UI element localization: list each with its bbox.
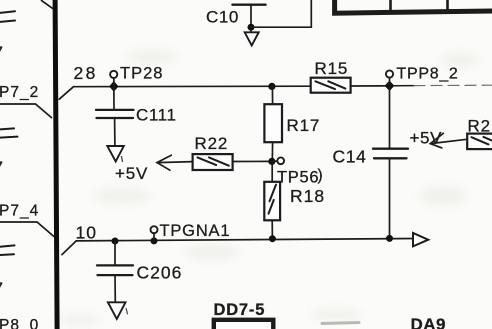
- ground under C10: [245, 32, 259, 45]
- wire pin28 rail (net TPP8_2): [74, 85, 311, 88]
- IC edge thick vertical line DD (left): [53, 0, 60, 329]
- wire faint continuation of rail to right edge: [394, 85, 414, 87]
- svg-text:C206: C206: [137, 263, 183, 283]
- junction C206: [112, 238, 119, 245]
- svg-text:R17: R17: [287, 116, 321, 135]
- wire rail to R17: [271, 86, 273, 104]
- junction C10: [248, 24, 255, 31]
- svg-text:+5V: +5V: [115, 164, 148, 183]
- junction TPGNA1: [151, 237, 158, 244]
- wire C10 lead: [250, 5, 252, 31]
- test point TP28 circle: [110, 71, 117, 78]
- junction TP28 (diamond): [109, 81, 118, 92]
- wire pin 28 from IC edge to rail: [59, 87, 73, 100]
- svg-text:R18: R18: [290, 186, 325, 206]
- wire C10 junction to top edge: [251, 0, 311, 27]
- off-page arrow right: [413, 233, 428, 247]
- svg-text:R15: R15: [315, 59, 349, 78]
- resistor R22: [193, 154, 233, 170]
- svg-text:28: 28: [74, 63, 98, 83]
- wire C206 to ground: [114, 275, 116, 302]
- resistor R2x (clipped right): [467, 134, 492, 150]
- junction rail/R17: [268, 83, 275, 90]
- wire R22 to mid junction: [233, 160, 272, 162]
- svg-text:R22: R22: [195, 134, 229, 153]
- wire P7_2 to IC edge: [0, 104, 52, 118]
- test point TP56 circle: [277, 157, 284, 164]
- wire mid junction down to R18: [271, 161, 273, 181]
- junction TPP8_2 (diamond): [385, 81, 395, 92]
- capacitor C14: [373, 149, 408, 159]
- scan tick: [121, 157, 122, 162]
- wire R17 to mid junction: [271, 142, 273, 161]
- test point TPGNA1 circle: [151, 226, 158, 233]
- bottom rail wire (net TPGNA1): [76, 239, 413, 241]
- TPGNA1 stub: [153, 233, 155, 241]
- svg-text:DD7-5: DD7-5: [214, 301, 266, 319]
- test point TPP8_2 circle: [386, 70, 393, 77]
- pin stub pair (cap mark) top-left: [0, 11, 15, 22]
- ground under C111: [107, 146, 124, 162]
- svg-text:P7_4: P7_4: [0, 203, 39, 220]
- power arrow left of R22: [157, 162, 193, 163]
- wire C14 to bottom rail: [389, 158, 391, 238]
- power arrow to R2: [430, 139, 467, 143]
- wire rail to C206: [114, 241, 116, 265]
- junction R18/rail: [269, 235, 276, 242]
- wire R18 to bottom rail: [271, 220, 273, 238]
- wire pin 10 from IC edge to bottom rail: [62, 241, 76, 255]
- svg-text:TPP8_2: TPP8_2: [397, 66, 459, 83]
- resistor R18: [264, 182, 280, 221]
- table divider 1: [389, 0, 392, 11]
- pin stub pair (cap mark) lower-left: [0, 245, 15, 255]
- wire P7_4 to IC edge: [0, 222, 54, 236]
- stub to TP56 circle: [272, 160, 277, 162]
- capacitor C111: [96, 110, 134, 118]
- wire R15 right to TPP8_2 junction: [351, 85, 390, 87]
- wire C111 to ground: [114, 119, 116, 146]
- svg-text:7: 7: [0, 159, 3, 179]
- junction C14/rail: [386, 235, 393, 242]
- svg-text:C14: C14: [333, 147, 367, 167]
- IC box DD7-5 (clipped bottom): [214, 320, 273, 329]
- svg-text:TP28: TP28: [120, 65, 163, 83]
- table box top right: [335, 0, 492, 13]
- scan tick: [126, 309, 127, 314]
- svg-text:P7_2: P7_2: [0, 84, 39, 101]
- svg-text:7: 7: [0, 280, 3, 300]
- svg-text:DA9: DA9: [411, 315, 447, 329]
- wire TP28 down to C111: [113, 78, 115, 110]
- resistor R15: [311, 78, 351, 93]
- junction mid node: [268, 158, 275, 165]
- pin stub pair (cap mark) mid-left: [0, 128, 18, 137]
- ground under C206: [108, 302, 126, 319]
- wire stub top-left into IC edge: [42, 1, 53, 9]
- table divider 2: [446, 0, 449, 10]
- svg-text:C10: C10: [206, 8, 239, 27]
- svg-text:7: 7: [0, 44, 3, 64]
- capacitor C206: [97, 265, 133, 275]
- resistor R17: [264, 104, 282, 142]
- svg-text:): ): [318, 167, 323, 184]
- wire TPP8_2 down to C14: [389, 78, 391, 149]
- svg-text:TPGNA1: TPGNA1: [160, 222, 231, 240]
- svg-text:P8_0: P8_0: [0, 317, 39, 329]
- capacitor C10 plate: [232, 4, 265, 6]
- faint smudge: [322, 323, 359, 324]
- svg-text:TP56: TP56: [277, 169, 319, 187]
- svg-text:10: 10: [76, 222, 97, 242]
- svg-text:C111: C111: [136, 106, 177, 125]
